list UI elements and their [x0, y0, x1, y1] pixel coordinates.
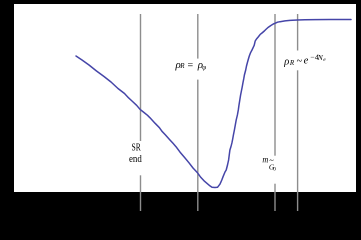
text SR end [129, 143, 142, 166]
svg-text:R: R [179, 62, 185, 70]
label box rho_R ~ e^-4Ne [284, 51, 351, 71]
text rho_R ~ e^-4Ne [283, 52, 326, 67]
svg-text:ρ: ρ [283, 56, 289, 67]
label box rho_R = rho_phi [174, 59, 236, 80]
svg-text:e: e [304, 56, 309, 67]
energy density curve [76, 20, 351, 188]
svg-text:φ: φ [202, 63, 206, 71]
vertical line x=275 [274, 14, 276, 211]
svg-text:0: 0 [273, 167, 276, 173]
svg-text:end: end [129, 154, 142, 165]
svg-text:~: ~ [297, 56, 303, 67]
text rho_R = rho_phi [175, 59, 207, 72]
vertical line x=197.8 [197, 14, 199, 211]
svg-text:SR: SR [132, 143, 142, 154]
vertical line x=297.6 [297, 14, 299, 211]
vertical line x=140.5 [140, 14, 142, 211]
text m tilde G 0 [262, 156, 276, 173]
label box SR end [128, 141, 163, 175]
label box m_G0 [262, 156, 292, 184]
axes plot area [14, 4, 356, 192]
svg-text:m: m [262, 156, 268, 166]
svg-text:R: R [289, 59, 295, 67]
svg-text:=: = [188, 60, 194, 71]
